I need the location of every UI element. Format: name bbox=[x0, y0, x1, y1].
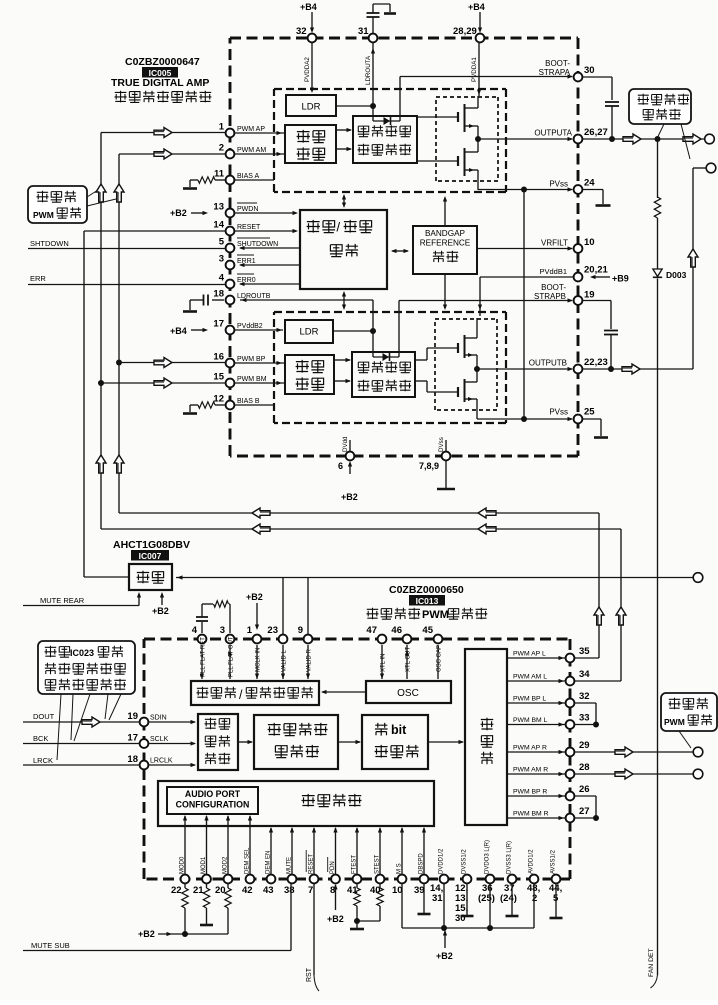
IC005 designator label bbox=[142, 67, 178, 78]
MOSFET output stage A dotted box bbox=[436, 96, 498, 98]
wire diff amp B outputs to gate drive B bbox=[334, 359, 350, 361]
pin 3 ERR1 of IC005 bbox=[226, 261, 235, 270]
pin 27 PWM BM R of IC013 bbox=[566, 814, 575, 823]
wire PVss B rail bbox=[477, 418, 572, 420]
svg-text:AHCT1G08DBV: AHCT1G08DBV bbox=[113, 539, 190, 551]
node OUTPUTA junction at half-bridge A bbox=[475, 136, 481, 142]
bootstrap capacitor A (pin30 to OUTPUTA) bbox=[582, 76, 612, 78]
ground at pin18 capacitor bbox=[183, 310, 197, 313]
pin 47 XTL IN of IC013 bbox=[378, 635, 387, 644]
svg-text:IC023: IC023 bbox=[70, 648, 94, 658]
svg-text:29: 29 bbox=[579, 740, 590, 751]
svg-text:LDR: LDR bbox=[301, 102, 320, 113]
svg-text:23: 23 bbox=[267, 625, 278, 636]
svg-text:LRCLK: LRCLK bbox=[150, 758, 173, 765]
speaker callout pointer lines bbox=[658, 124, 665, 138]
wire PWDN pin13 to control block bbox=[234, 212, 294, 214]
svg-text:PVddB1: PVddB1 bbox=[539, 267, 567, 276]
svg-text:SHTDOWN: SHTDOWN bbox=[30, 239, 69, 248]
pin 21 MOD1 of IC013 bottom bbox=[202, 875, 211, 884]
svg-text:46: 46 bbox=[391, 625, 402, 636]
bootstrap gate-drive block B (cjk) bbox=[352, 352, 415, 397]
svg-text:PWM: PWM bbox=[664, 717, 685, 727]
wire pin1 PWM AP into diff amp A bbox=[234, 132, 284, 134]
svg-text:DVss: DVss bbox=[438, 437, 445, 452]
resistor at FTEST pin 41 bbox=[356, 883, 358, 888]
wire PVDDB1 from pin 20,21 down to output stage B bbox=[480, 276, 574, 278]
pin 45 OSC CAP of IC013 bbox=[434, 635, 443, 644]
pin 8 PDN of IC013 bottom bbox=[331, 875, 340, 884]
svg-text:PWM BM R: PWM BM R bbox=[513, 811, 549, 818]
pin 46 XTL OUT of IC013 bbox=[403, 635, 412, 644]
svg-text:DVSS1/2: DVSS1/2 bbox=[462, 849, 468, 874]
svg-text:(24): (24) bbox=[500, 893, 517, 904]
wire PWM AM R from buffer to pin 28 bbox=[507, 773, 565, 775]
wire ERR0 control block out to pin 4 bbox=[240, 283, 300, 285]
pin 19 SDIN of IC013 bbox=[140, 718, 149, 727]
pin 17 SCLK of IC013 bbox=[140, 739, 149, 748]
svg-text:LDROUTA: LDROUTA bbox=[365, 55, 372, 85]
svg-text:DVdd: DVdd bbox=[342, 436, 349, 452]
pin 22 MOD0 of IC013 bottom bbox=[181, 875, 190, 884]
junction LDROUTA/LDR A bbox=[370, 103, 376, 109]
bootstrap capacitor B (pin19 to OUTPUTB) bbox=[582, 300, 611, 302]
overline of ERR0 bbox=[237, 273, 254, 275]
serial audio channel block (cjk) bbox=[198, 714, 238, 770]
svg-text:20: 20 bbox=[215, 885, 226, 896]
pin 32 PVDDA2 bbox=[308, 34, 317, 43]
svg-text:38: 38 bbox=[284, 885, 295, 896]
wire PWM vertical line 1 (x=101) bbox=[100, 133, 102, 530]
svg-text:10: 10 bbox=[584, 237, 595, 248]
resistor at STEST pin 40 bbox=[379, 883, 381, 888]
svg-text:DOUT: DOUT bbox=[33, 712, 55, 721]
wire VRFILT bandgap to pin 10 bbox=[477, 248, 572, 250]
ground at MOD1 resistor bbox=[200, 924, 213, 927]
svg-text:16: 16 bbox=[213, 352, 224, 363]
svg-text:PWM BP L: PWM BP L bbox=[513, 696, 546, 703]
IC005 Chinese title (center-channel digital amp) bbox=[115, 91, 212, 103]
control circuit block bbox=[158, 781, 434, 826]
svg-text:BOOT-: BOOT- bbox=[541, 283, 566, 292]
wire PWM vertical line 2 (x=119) bbox=[118, 154, 120, 513]
OSC block bbox=[366, 681, 451, 703]
wire pin16 PWM BP into diff amp B bbox=[234, 362, 284, 364]
svg-text:28,29: 28,29 bbox=[453, 26, 477, 37]
arrow serial-audio to interpolation filter bbox=[238, 741, 252, 743]
svg-text:PWM AP L: PWM AP L bbox=[513, 651, 546, 658]
pin 15 PWM BM of IC005 bbox=[226, 379, 235, 388]
differential amp block A (cjk) bbox=[285, 125, 336, 163]
bootstrap gate-drive block A (cjk) bbox=[353, 116, 417, 163]
overline of SHUTDOWN bbox=[237, 237, 270, 239]
svg-text:REFERENCE: REFERENCE bbox=[420, 239, 471, 248]
svg-text:SCLK: SCLK bbox=[150, 736, 169, 743]
svg-text:20,21: 20,21 bbox=[584, 265, 608, 276]
pin 44, AVSS1/2 of IC013 bottom bbox=[552, 875, 561, 884]
svg-text:PWM BM: PWM BM bbox=[237, 376, 267, 383]
wire OSC to PLL block bbox=[322, 691, 366, 693]
transistor Q-B-high (NMOS) bbox=[457, 343, 459, 353]
svg-text:PWM AM: PWM AM bbox=[237, 147, 266, 154]
svg-text:BIAS B: BIAS B bbox=[237, 398, 260, 405]
wire PVss A rail bbox=[478, 189, 572, 191]
svg-text:IC013: IC013 bbox=[416, 596, 439, 606]
wire PWM BP R from buffer to pin 26 bbox=[507, 795, 565, 797]
svg-text:FAN DET: FAN DET bbox=[648, 948, 655, 977]
pin 30 BOOTSTRAPA bbox=[574, 73, 583, 82]
svg-text:11: 11 bbox=[214, 169, 225, 180]
svg-text:+B9: +B9 bbox=[612, 274, 629, 284]
svg-text:+B2: +B2 bbox=[246, 592, 263, 602]
wire PWM AM L from pin34 to PWM line 1 bbox=[101, 528, 621, 530]
svg-text:PVDDA1: PVDDA1 bbox=[471, 57, 478, 82]
wire VALID input into AND gate right side bbox=[176, 577, 694, 579]
wire PWM AM L from buffer to pin 34 bbox=[507, 680, 565, 682]
pin 48, AVDD1/2 of IC013 bottom bbox=[530, 875, 539, 884]
equal-bit modulator block (cjk) bbox=[362, 715, 428, 769]
svg-text:PVddB2: PVddB2 bbox=[237, 323, 263, 330]
wire OUTPUTB external bbox=[582, 368, 693, 370]
wire OUTPUTB to pin 22,23 bbox=[477, 368, 572, 370]
callout pointer lines to PWM arrows bbox=[87, 190, 98, 197]
svg-text:IC007: IC007 bbox=[139, 551, 162, 561]
svg-text:/: / bbox=[337, 220, 341, 235]
subwoofer PWM callout (cjk) bbox=[661, 693, 717, 731]
svg-text:21: 21 bbox=[193, 885, 204, 896]
wire XTL IN into OSC bbox=[381, 645, 383, 679]
svg-text:PWM BP: PWM BP bbox=[237, 356, 266, 363]
MOSFET output stage B dotted box bbox=[435, 318, 497, 320]
wire SHUTDOWN control block to pin 5 bbox=[240, 247, 300, 249]
svg-text:+B2: +B2 bbox=[327, 914, 344, 924]
pin 18 LDROUTB of IC005 bbox=[226, 296, 235, 305]
svg-text:C0ZBZ0000650: C0ZBZ0000650 bbox=[389, 584, 464, 596]
pin 1 MCLK IN of IC013 bbox=[253, 635, 262, 644]
svg-text:1: 1 bbox=[247, 625, 253, 636]
pin 12 BIAS B of IC005 bbox=[226, 401, 235, 410]
channel A inner dashed box bbox=[274, 88, 506, 90]
callout pointer lines to serial wires bbox=[57, 694, 61, 760]
wire +B4 into pin 32 bbox=[311, 12, 313, 31]
pin 18 LRCLK of IC013 bbox=[140, 761, 149, 770]
pin 35 PWM AP L of IC013 bbox=[566, 654, 575, 663]
pin 5 SHUTDOWN of IC005 bbox=[226, 244, 235, 253]
wires top pins into PLL block bbox=[201, 645, 203, 679]
wire bandgap down to channel B bbox=[444, 274, 446, 308]
subwoofer callout pointer bbox=[679, 731, 691, 748]
svg-text:BCK: BCK bbox=[33, 734, 48, 743]
svg-text:2: 2 bbox=[219, 143, 224, 154]
svg-text:PWM AP R: PWM AP R bbox=[513, 745, 547, 752]
svg-text:1: 1 bbox=[219, 122, 225, 133]
junction LDROUTB/LDR B bbox=[370, 328, 376, 334]
node OUTPUTB junction at half-bridge B bbox=[474, 366, 480, 372]
pin 23 VALID L of IC013 bbox=[279, 635, 288, 644]
svg-text:ERR: ERR bbox=[30, 274, 46, 283]
wire PVDDA1 down to output stage A bbox=[478, 42, 480, 96]
svg-text:STRAPB: STRAPB bbox=[534, 292, 566, 301]
capacitor at pin 18 LDROUTB bbox=[212, 299, 224, 301]
pin 32 PWM BP L of IC013 bbox=[566, 699, 575, 708]
differential amp block B (cjk) bbox=[285, 355, 334, 394]
wire PWM AP R from buffer to pin 29 bbox=[507, 751, 565, 753]
wire BIAS A into channel A box bbox=[234, 179, 274, 181]
svg-text:PWM: PWM bbox=[33, 210, 54, 220]
wire PWM BP L from buffer to pin 32 bbox=[507, 702, 565, 704]
wire M S strap bbox=[401, 883, 403, 928]
pin 24 PVss A bbox=[574, 185, 583, 194]
svg-text:22,23: 22,23 bbox=[584, 357, 608, 368]
svg-text:DVDD1/2: DVDD1/2 bbox=[439, 848, 445, 874]
svg-text:13: 13 bbox=[213, 202, 224, 213]
pin 11 BIAS A of IC005 bbox=[226, 176, 235, 185]
svg-text:AUDIO PORT: AUDIO PORT bbox=[185, 789, 241, 799]
double arrow control block to channel B bbox=[343, 293, 345, 308]
control circuit label (cjk) bbox=[302, 794, 362, 807]
junction +B2 MOD0 bbox=[182, 931, 188, 937]
LDR block A bbox=[286, 95, 336, 116]
resistor at MOD1 bbox=[206, 883, 208, 888]
svg-text:PVDDA2: PVDDA2 bbox=[304, 57, 311, 82]
wire RST from pin 7 RESET bbox=[313, 883, 315, 975]
wire BIAS B into channel B box bbox=[234, 404, 274, 406]
RC filter at PLL FLAT pins bbox=[201, 622, 203, 633]
transistor Q-A-high (NMOS) bbox=[457, 112, 459, 122]
pin 42 DEM SEL of IC013 bottom bbox=[246, 875, 255, 884]
svg-text:CONFIGURATION: CONFIGURATION bbox=[176, 800, 250, 810]
svg-text:RESET: RESET bbox=[237, 224, 261, 231]
speaker terminal 1 bbox=[705, 134, 715, 144]
svg-text:+B4: +B4 bbox=[468, 2, 485, 12]
svg-text:7,8,9: 7,8,9 bbox=[419, 461, 439, 471]
pin 12, DVSS1/2 of IC013 bottom bbox=[463, 875, 472, 884]
pins 7,8,9 DVss bbox=[445, 440, 447, 452]
transistor Q-B-low (NMOS) bbox=[457, 387, 459, 397]
svg-text:BOOT-: BOOT- bbox=[545, 59, 570, 68]
IC013 designator label bbox=[409, 595, 445, 606]
wire ERR to pin 4 bbox=[28, 284, 226, 286]
svg-text:+B2: +B2 bbox=[152, 606, 169, 616]
svg-text:3: 3 bbox=[219, 254, 224, 265]
wire PWM AM horizontal into pin 2 bbox=[119, 153, 226, 155]
overline of PWDN bbox=[237, 202, 257, 204]
BANDGAP REFERENCE block bbox=[413, 226, 477, 274]
pin 43 DEM EN of IC013 bottom bbox=[267, 875, 276, 884]
arrow modulator to buffer bbox=[428, 741, 463, 743]
svg-text:MUTE REAR: MUTE REAR bbox=[40, 596, 85, 605]
svg-text:19: 19 bbox=[127, 711, 138, 722]
svg-text:6: 6 bbox=[338, 461, 343, 471]
pin 37 DVSS3 L(R) of IC013 bottom bbox=[508, 875, 517, 884]
transistor Q-B-low gate wire bbox=[415, 380, 427, 382]
wire DVSS1/2 to ground bbox=[466, 883, 468, 915]
pin 17 PVDDB2 of IC005 bbox=[226, 326, 235, 335]
pin 7 RESET of IC013 bottom bbox=[310, 875, 319, 884]
pin 10 VRFILT bbox=[574, 244, 583, 253]
wire +B2 into supply strap bbox=[444, 931, 446, 948]
svg-text:PWDN: PWDN bbox=[237, 206, 258, 213]
pin 6 DVdd bbox=[349, 440, 351, 452]
pin 26 PWM BP R of IC013 bbox=[566, 792, 575, 801]
wire bootstrap B up to pin 19 bbox=[398, 301, 400, 358]
wire AVDD1/2 strap down bbox=[533, 883, 535, 928]
wire LDROUTB pin 18 bbox=[240, 299, 373, 301]
svg-text:PWM AP: PWM AP bbox=[237, 126, 265, 133]
svg-text:/: / bbox=[239, 688, 243, 702]
wire PWM AP R to subwoofer terminal bbox=[574, 751, 694, 753]
wire LDR A output to LDROUTA net bbox=[336, 105, 373, 107]
svg-text:19: 19 bbox=[584, 290, 595, 301]
junction PVss B bbox=[521, 416, 527, 422]
wire LDROUTA pin31 down into IC bbox=[372, 42, 374, 121]
svg-text:7: 7 bbox=[308, 885, 313, 896]
svg-text:15: 15 bbox=[213, 372, 224, 383]
svg-text:PWM BM L: PWM BM L bbox=[513, 717, 548, 724]
svg-text:+B2: +B2 bbox=[341, 492, 358, 502]
LDR block B bbox=[285, 320, 333, 343]
wire tap to pin 15 PWM BM bbox=[101, 382, 226, 384]
supply strap +B2 rail bbox=[402, 927, 534, 929]
svg-text:18: 18 bbox=[213, 289, 224, 300]
wire +B4 into pins 28,29 bbox=[479, 12, 481, 31]
wire +B2 into AND gate bbox=[161, 594, 163, 605]
arrow interpolation filter to modulator bbox=[338, 741, 360, 743]
wire PWM AM R to subwoofer terminal bbox=[574, 773, 694, 775]
ground bar of pin31 capacitor bbox=[384, 12, 396, 15]
wire XTL OUT from OSC bbox=[406, 645, 408, 679]
wire pin34 vertical riser bbox=[574, 680, 621, 682]
svg-text:33: 33 bbox=[579, 713, 590, 724]
ground at pin 24 bbox=[582, 189, 603, 191]
double arrow control block to channel A bbox=[343, 196, 345, 206]
wire AND gate output to RESET pin 14 bbox=[84, 576, 129, 578]
svg-text:OUTPUTA: OUTPUTA bbox=[534, 129, 572, 138]
svg-text:3: 3 bbox=[220, 625, 225, 636]
svg-text:32: 32 bbox=[296, 26, 307, 37]
svg-text:PVss: PVss bbox=[549, 408, 568, 417]
resistor at MOD2 bbox=[227, 883, 229, 888]
wire pin2 PWM AM into diff amp A bbox=[234, 153, 284, 155]
pin 9 VALID R of IC013 bbox=[304, 635, 313, 644]
svg-text:24: 24 bbox=[584, 178, 595, 189]
pin 19 BOOTSTRAPB bbox=[574, 296, 583, 305]
svg-text:bit: bit bbox=[391, 723, 407, 737]
wire DVSS3 to ground bbox=[511, 883, 513, 915]
pin 41 FTEST of IC013 bottom bbox=[353, 875, 362, 884]
svg-text:4: 4 bbox=[192, 625, 198, 636]
transistor Q-A-low gate wire bbox=[417, 160, 458, 162]
svg-text:+B4: +B4 bbox=[170, 326, 187, 336]
svg-text:C0ZBZ0000647: C0ZBZ0000647 bbox=[125, 56, 200, 68]
svg-text:DVDO3 L(R): DVDO3 L(R) bbox=[485, 840, 491, 874]
wire DBSPD to ground bbox=[423, 883, 425, 913]
svg-text:4: 4 bbox=[219, 273, 225, 284]
pin 16 PWM BP of IC005 bbox=[226, 359, 235, 368]
svg-text:LDR: LDR bbox=[299, 327, 318, 338]
PLL / clock generator block (cjk) bbox=[191, 681, 319, 705]
pin 28 PWM AM R of IC013 bbox=[566, 770, 575, 779]
resistor on OUTPUTA sense line bbox=[657, 139, 659, 198]
svg-text:RST: RST bbox=[306, 967, 313, 982]
wire pin15 PWM BM into diff amp B bbox=[234, 382, 284, 384]
svg-text:17: 17 bbox=[213, 319, 224, 330]
svg-text:LDROUTB: LDROUTB bbox=[237, 293, 271, 300]
svg-text:+B2: +B2 bbox=[138, 929, 155, 939]
channel B inner dashed box bbox=[274, 311, 506, 313]
double arrow control to bandgap bbox=[392, 250, 408, 252]
bootstrap diode B bbox=[373, 356, 399, 358]
pin 26,27 OUTPUTA bbox=[574, 135, 583, 144]
wire bandgap up to channel A bbox=[444, 198, 446, 226]
pin 25 PVss B bbox=[574, 415, 583, 424]
diode D003 bbox=[653, 269, 662, 277]
svg-text:OUTPUTB: OUTPUTB bbox=[529, 359, 567, 368]
IC013 dashed boundary box bbox=[144, 638, 570, 641]
svg-text:VRFILT: VRFILT bbox=[541, 239, 568, 248]
AND gate block (cjk) bbox=[129, 564, 172, 590]
wire PWM BM R from buffer to pin 27 bbox=[507, 817, 565, 819]
svg-text:31: 31 bbox=[358, 26, 369, 37]
svg-text:26: 26 bbox=[579, 784, 590, 795]
svg-text:10: 10 bbox=[392, 885, 403, 896]
pin 3 PLL FLAT OUT of IC013 bbox=[226, 635, 235, 644]
wire DVDD1/2 strap down bbox=[443, 883, 445, 928]
svg-text:ERR1: ERR1 bbox=[237, 258, 256, 265]
svg-text:PVss: PVss bbox=[549, 180, 568, 189]
pin 34 PWM AM L of IC013 bbox=[566, 677, 575, 686]
bootstrap diode A bbox=[373, 120, 400, 122]
svg-text:45: 45 bbox=[422, 625, 433, 636]
svg-text:35: 35 bbox=[579, 646, 590, 657]
wire joining PVss A and PVss B rails bbox=[523, 190, 525, 420]
callout digital audio from IC023 (cjk) bbox=[38, 641, 135, 694]
capacitor at pin 31 to ground bbox=[372, 17, 374, 34]
wire PVDDA2 pin32 down to LDR A bbox=[311, 42, 313, 88]
wire LDR B output bbox=[333, 330, 373, 332]
pin 14,31 DVDD1/2 of IC013 bottom bbox=[440, 875, 449, 884]
svg-text:PWM BP R: PWM BP R bbox=[513, 789, 547, 796]
svg-text:OSC: OSC bbox=[397, 688, 419, 699]
svg-text:5: 5 bbox=[219, 237, 225, 248]
svg-text:47: 47 bbox=[366, 625, 377, 636]
pin 4 ERR0 of IC005 bbox=[226, 280, 235, 289]
pin 10 M S of IC013 bottom bbox=[398, 875, 407, 884]
pin 13 PWDN of IC005 bbox=[226, 209, 235, 218]
wire +B2 into pin 6 bbox=[349, 463, 351, 474]
wire diff amp A outputs to gate drive A bbox=[336, 129, 351, 131]
svg-text:30: 30 bbox=[584, 65, 595, 76]
wire VALID R riser to pin 9 bbox=[307, 578, 309, 635]
pin 14 RESET of IC005 bbox=[226, 227, 235, 236]
pin 1 PWM AP of IC005 bbox=[226, 129, 235, 138]
svg-text:+B2: +B2 bbox=[170, 208, 187, 218]
pin 40 STEST of IC013 bottom bbox=[376, 875, 385, 884]
svg-text:BIAS A: BIAS A bbox=[237, 173, 260, 180]
ground at BIAS A resistor bbox=[183, 187, 197, 190]
svg-text:PWM AM R: PWM AM R bbox=[513, 767, 548, 774]
svg-text:SDIN: SDIN bbox=[150, 715, 167, 722]
junction bootstrap capB on OUTPUTB bbox=[608, 366, 614, 372]
wire OUTPUTA to pin 26,27 bbox=[478, 138, 572, 140]
svg-text:31: 31 bbox=[432, 893, 443, 904]
transistor Q-A-low (NMOS) bbox=[457, 156, 459, 166]
svg-text:PWM AM L: PWM AM L bbox=[513, 674, 547, 681]
IC007 designator label bbox=[131, 550, 169, 561]
junction bootstrap capA on OUTPUTA bbox=[609, 136, 615, 142]
svg-text:ERR0: ERR0 bbox=[237, 277, 256, 284]
jumper pins 26-27 bbox=[574, 795, 596, 797]
